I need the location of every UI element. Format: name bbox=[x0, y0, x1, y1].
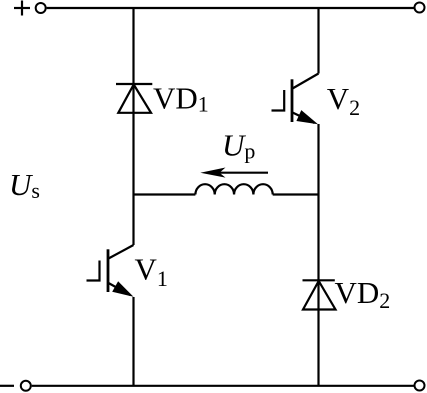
svg-text:V2: V2 bbox=[327, 81, 360, 120]
wire middle right bbox=[273, 193, 319, 195]
inductor Up winding bbox=[195, 184, 272, 194]
wire left branch lower bbox=[132, 297, 134, 386]
svg-text:V1: V1 bbox=[135, 251, 168, 290]
wire left branch upper bbox=[132, 8, 134, 245]
wire top rail bbox=[47, 7, 414, 9]
transistor V1 bbox=[87, 245, 134, 297]
svg-text:Up: Up bbox=[222, 127, 255, 163]
terminal top-left bbox=[36, 3, 46, 13]
transistor V2 bbox=[272, 74, 319, 125]
wire bottom rail bbox=[32, 385, 414, 387]
wire middle left bbox=[134, 193, 196, 195]
wire right branch lower bbox=[317, 124, 319, 386]
terminal bottom-left bbox=[21, 381, 31, 391]
minus sign bbox=[0, 385, 14, 387]
diode VD2 bbox=[303, 280, 336, 309]
arrow Up direction bbox=[200, 168, 268, 178]
plus sign bbox=[14, 1, 30, 16]
svg-text:VD1: VD1 bbox=[153, 81, 209, 117]
svg-text:VD2: VD2 bbox=[335, 275, 391, 313]
diode VD1 bbox=[116, 84, 152, 113]
wire right branch upper bbox=[317, 8, 319, 74]
terminal bottom-right bbox=[415, 381, 425, 391]
svg-text:Us: Us bbox=[9, 167, 40, 203]
terminal top-right bbox=[415, 3, 425, 13]
